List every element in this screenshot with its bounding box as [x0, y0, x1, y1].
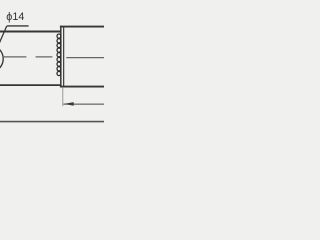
centerline dash 3 (inside body)	[66, 57, 104, 59]
centerline dash 2	[36, 56, 53, 58]
technical drawing: solenoid body with shaft, spring coil, dimension callout	[0, 0, 104, 130]
shaft top edge	[0, 31, 61, 33]
inner face line	[63, 26, 65, 87]
arrowhead	[64, 102, 74, 106]
leader shoulder	[7, 25, 29, 27]
circle phi14 (end view, clipped at left edge)	[0, 45, 3, 72]
leader slant	[0, 26, 7, 44]
centerline dash 1	[3, 56, 27, 58]
body top edge	[60, 26, 104, 28]
shaft bottom edge	[0, 84, 61, 86]
body left edge	[60, 26, 62, 88]
dimension extension line	[62, 88, 64, 106]
dimension line	[63, 103, 104, 105]
body bottom edge	[60, 86, 104, 88]
spring coil on shaft face	[57, 34, 61, 38]
lower part edge (cropped)	[0, 121, 104, 123]
svg-text:ϕ14: ϕ14	[6, 11, 24, 23]
background	[0, 0, 104, 130]
